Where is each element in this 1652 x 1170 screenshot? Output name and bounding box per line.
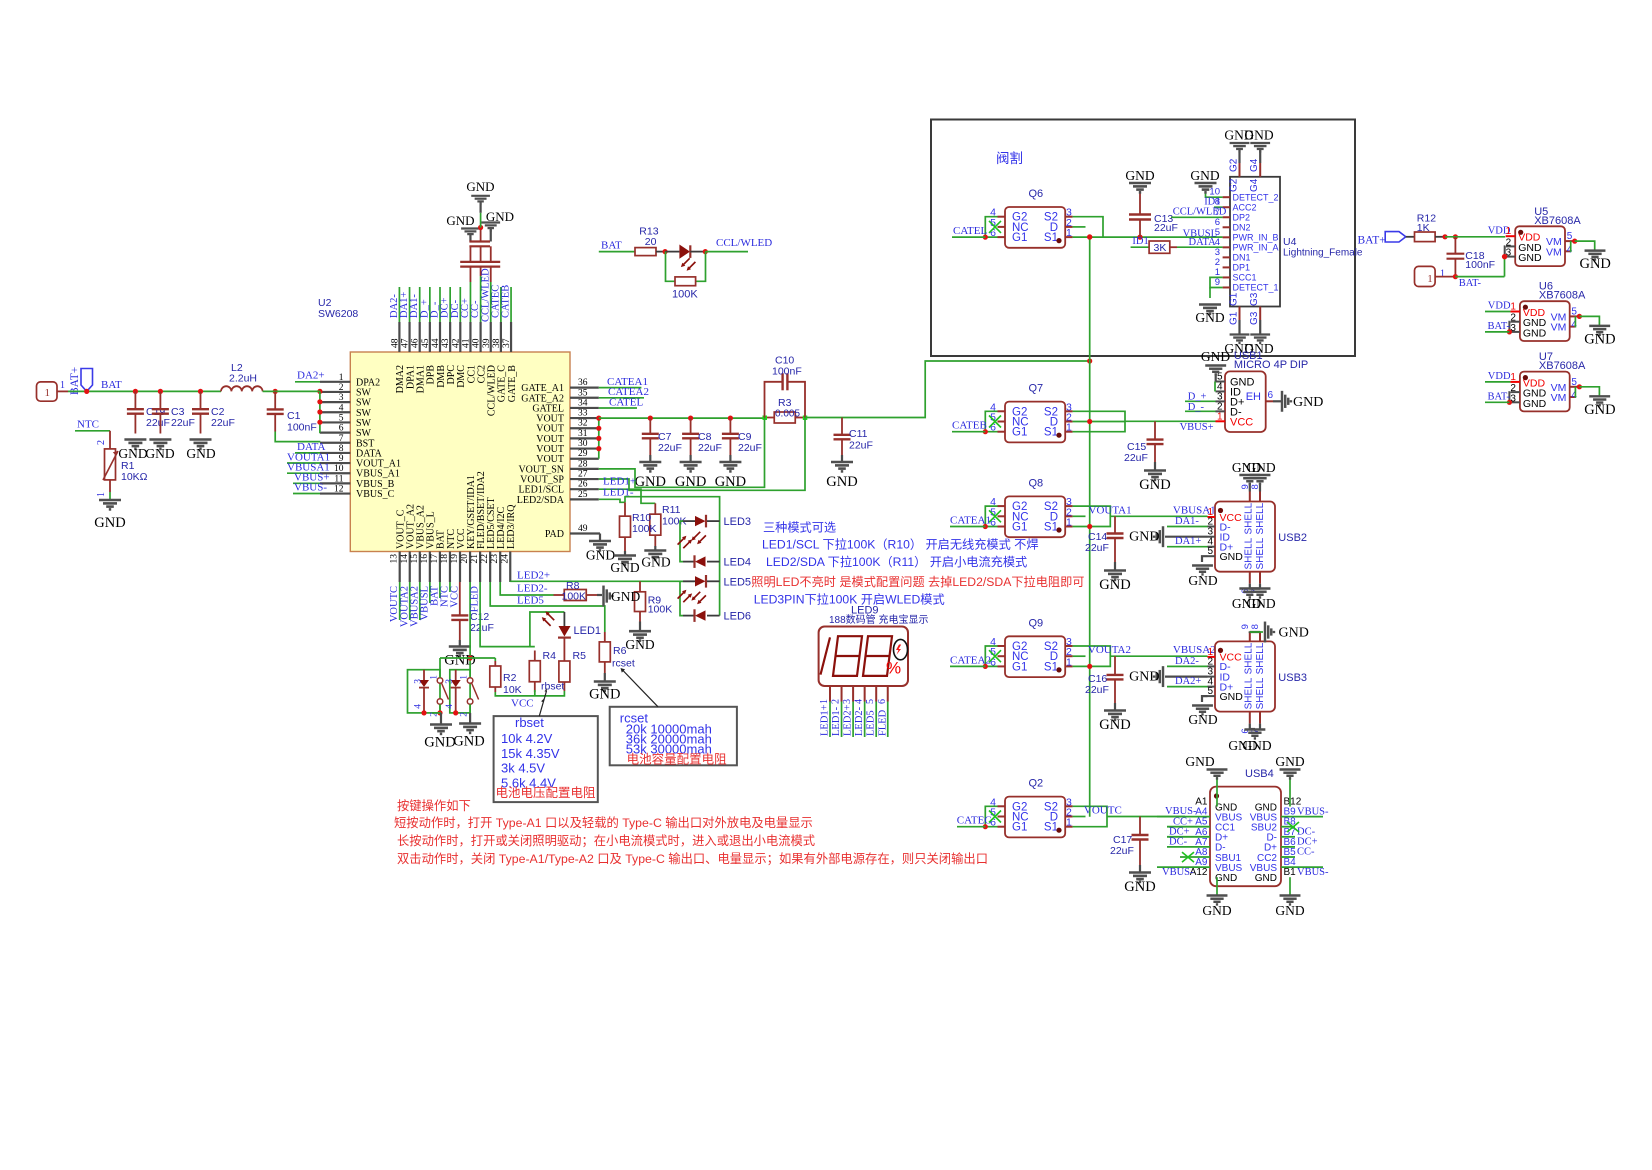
- svg-text:6: 6: [1268, 390, 1274, 401]
- svg-text:GND: GND: [1129, 530, 1159, 545]
- ground at U2 PAD: [589, 541, 611, 550]
- net label VBUS- on pin 12: [293, 493, 320, 495]
- ground below switch S1: [432, 712, 441, 714]
- capacitor C7 22uF: [649, 418, 651, 434]
- ground at U4 DETECT_2: [1195, 183, 1217, 192]
- svg-text:GND: GND: [1584, 331, 1615, 347]
- svg-text:37: 37: [502, 338, 512, 348]
- ground below C2: [190, 440, 212, 449]
- svg-text:1: 1: [1066, 227, 1072, 239]
- svg-text:G2: G2: [1229, 178, 1240, 192]
- svg-text:21: 21: [470, 554, 480, 564]
- ground below C8: [689, 455, 691, 462]
- ground below C3: [149, 440, 171, 449]
- wire Q7 D to rail: [1073, 421, 1125, 423]
- net label CCL/WLED at U4 DP2: [1171, 216, 1223, 218]
- svg-text:22uF: 22uF: [1110, 845, 1134, 857]
- wire Q6 D stub: [1073, 226, 1086, 228]
- svg-text:SHELL: SHELL: [1255, 502, 1266, 534]
- svg-text:Q8: Q8: [1029, 477, 1044, 489]
- svg-text:VBUS-: VBUS-: [294, 482, 327, 494]
- svg-text:45: 45: [421, 338, 431, 348]
- ground below R6: [604, 673, 606, 681]
- svg-text:6: 6: [339, 424, 344, 434]
- svg-text:1: 1: [60, 380, 65, 391]
- ground above C13: [1129, 183, 1151, 192]
- net label D_+ at USB1 D+: [1185, 400, 1216, 402]
- wire Q6 gate bracket: [985, 217, 997, 237]
- svg-text:CCL/WLED: CCL/WLED: [1173, 207, 1227, 218]
- svg-text:LED2-: LED2-: [517, 583, 548, 595]
- svg-text:34: 34: [578, 398, 588, 408]
- svg-text:%: %: [886, 659, 901, 678]
- resistor R11 100K: [654, 503, 656, 514]
- ground below C16: [1114, 703, 1116, 710]
- svg-text:188数码管 充电宝显示: 188数码管 充电宝显示: [829, 613, 928, 626]
- svg-text:1: 1: [1217, 411, 1223, 422]
- svg-text:3k 4.5V: 3k 4.5V: [501, 761, 545, 776]
- svg-text:10K: 10K: [503, 684, 522, 696]
- svg-text:5: 5: [339, 413, 344, 423]
- svg-text:30: 30: [578, 439, 588, 449]
- ground below C11: [841, 455, 843, 462]
- svg-text:S1: S1: [1044, 661, 1058, 673]
- svg-text:100nF: 100nF: [287, 422, 317, 434]
- wire LED5 feed from LED2+ net: [510, 580, 694, 582]
- svg-text:阀割: 阀割: [996, 150, 1023, 166]
- no-connect cross at USB4 B8: [1287, 822, 1299, 832]
- svg-text:照明LED不亮时 是模式配置问题 去掉LED2/SDA下拉电: 照明LED不亮时 是模式配置问题 去掉LED2/SDA下拉电阻即可: [751, 574, 1084, 589]
- svg-text:LED2+: LED2+: [843, 704, 854, 736]
- svg-text:电池电压配置电阻: 电池电压配置电阻: [496, 786, 597, 800]
- wire pin23 LED4/I2C to R8 (LED2- net): [500, 582, 517, 595]
- svg-text:VM: VM: [1551, 322, 1567, 334]
- digit 8 second: [863, 636, 892, 676]
- svg-text:SCC1: SCC1: [1233, 273, 1257, 283]
- svg-text:G1: G1: [1012, 822, 1027, 834]
- svg-text:22uF: 22uF: [1124, 452, 1148, 464]
- wire KEY horizontal to R2: [440, 657, 495, 659]
- wire R12 to U5 VDD: [1442, 234, 1447, 239]
- svg-text:CATEB: CATEB: [952, 420, 987, 432]
- svg-text:GND: GND: [446, 213, 474, 228]
- svg-text:1: 1: [1066, 422, 1072, 434]
- note box rbset battery voltage config: [494, 716, 598, 802]
- net label ID1 at U4 ACC2: [1214, 206, 1223, 208]
- svg-text:2: 2: [460, 712, 470, 717]
- svg-text:GND: GND: [1275, 754, 1304, 769]
- ground sideways at USB2 ID: [1165, 536, 1208, 538]
- wire USB1 ID pin4 green elbow: [1214, 382, 1216, 392]
- ground at cluster top: [471, 196, 490, 204]
- svg-text:1: 1: [1510, 372, 1516, 383]
- ground below switch S2: [469, 704, 471, 713]
- svg-text:GND: GND: [94, 515, 125, 531]
- wire Q6 S2 to S1 merge: [1073, 217, 1103, 237]
- svg-text:4: 4: [339, 403, 344, 413]
- svg-text:GND: GND: [1293, 395, 1323, 410]
- svg-text:GND: GND: [186, 446, 215, 461]
- svg-text:3K: 3K: [1154, 242, 1167, 254]
- svg-text:LED4: LED4: [724, 557, 752, 569]
- svg-text:G1: G1: [1012, 522, 1027, 534]
- wire R13 to LED anode: [656, 251, 665, 253]
- transistor Q6 dual MOSFET: [1005, 207, 1065, 248]
- svg-text:LED3/IRQ: LED3/IRQ: [506, 504, 517, 549]
- svg-text:GND: GND: [1188, 712, 1217, 727]
- svg-text:VBUS_C: VBUS_C: [356, 489, 395, 500]
- svg-text:5: 5: [865, 699, 876, 704]
- svg-text:DN1: DN1: [1233, 253, 1251, 263]
- capacitor C8 22uF: [690, 418, 692, 434]
- transistor Q2 dual MOSFET: [1005, 797, 1065, 838]
- svg-text:1: 1: [1066, 656, 1072, 668]
- svg-text:ACC2: ACC2: [1233, 202, 1257, 212]
- svg-text:LED6: LED6: [724, 611, 752, 623]
- svg-text:DA1-: DA1-: [1175, 516, 1199, 527]
- net label CATEA1 pin36: [599, 387, 642, 389]
- svg-text:GND: GND: [145, 446, 174, 461]
- svg-text:22uF: 22uF: [658, 442, 682, 454]
- svg-text:Q6: Q6: [1029, 188, 1044, 200]
- svg-text:GND: GND: [1579, 256, 1610, 272]
- svg-text:GND: GND: [453, 734, 484, 750]
- svg-text:1: 1: [1066, 817, 1072, 829]
- wire VOUT_SP sense pin27 to R3 right: [599, 418, 805, 491]
- capacitor lower decoupling wide: [460, 261, 500, 263]
- svg-text:DETECT_1: DETECT_1: [1233, 283, 1279, 293]
- svg-text:GND: GND: [1099, 717, 1130, 733]
- svg-text:1: 1: [1427, 273, 1433, 285]
- U2 top pins 37-48 stubs and names: [398, 322, 400, 352]
- wire Q8 S bracket: [1073, 506, 1111, 526]
- svg-text:GND: GND: [1124, 879, 1155, 895]
- wire Q9 D stub: [1073, 655, 1086, 657]
- ground below C7: [649, 455, 651, 462]
- net flag BAT+ vertical: [81, 369, 93, 392]
- wire L2 to SW bus: [263, 390, 320, 392]
- svg-text:BAT+: BAT+: [1358, 235, 1386, 247]
- wires from U2 bottom pins 13-18 with labels: [399, 582, 401, 620]
- wire Q2 gate bracket: [985, 806, 997, 826]
- svg-text:38: 38: [492, 338, 502, 348]
- svg-text:20: 20: [460, 554, 470, 564]
- capacitor C13 22uF: [1139, 191, 1141, 215]
- svg-text:GND: GND: [444, 653, 475, 669]
- ground at pin41 top: [461, 229, 480, 237]
- svg-text:1: 1: [1440, 269, 1445, 280]
- push button switch S1 with TVS: [408, 670, 441, 713]
- LED3 light emitting diode: [683, 520, 695, 522]
- svg-text:CCL/WLED: CCL/WLED: [716, 237, 772, 249]
- svg-text:G4: G4: [1249, 178, 1260, 192]
- svg-text:DC-: DC-: [1297, 827, 1316, 838]
- svg-text:4: 4: [854, 699, 865, 704]
- ground below C9: [729, 455, 731, 462]
- svg-text:8: 8: [1250, 624, 1261, 629]
- arrow rbset box to R4: [539, 698, 544, 716]
- wire DATA 3K to U4 PWR_IN_A: [1177, 246, 1223, 248]
- wire pin20 KEY down to switches: [469, 582, 471, 677]
- svg-text:SHELL: SHELL: [1244, 642, 1255, 674]
- op-amp U7 XB7608A battery protect IC: [1520, 372, 1570, 412]
- svg-text:LED2+: LED2+: [517, 569, 550, 581]
- svg-text:DA2+: DA2+: [297, 370, 325, 382]
- svg-text:C1: C1: [287, 410, 301, 422]
- wire U6 GND pins elbow: [1508, 322, 1511, 332]
- svg-text:2.2uH: 2.2uH: [229, 373, 257, 385]
- svg-text:15: 15: [410, 554, 420, 564]
- resistor R6 rcset: [604, 632, 606, 642]
- svg-text:1: 1: [45, 387, 51, 399]
- wire U4 SCC1 DETECT_1 to ground: [1210, 277, 1223, 287]
- svg-text:PWR_IN_B: PWR_IN_B: [1233, 233, 1279, 243]
- svg-text:DA2+: DA2+: [1175, 676, 1201, 687]
- svg-text:24: 24: [500, 554, 510, 564]
- svg-text:CATEA1: CATEA1: [950, 515, 991, 527]
- resistor 100K parallel with LED: [666, 252, 676, 282]
- svg-text:R2: R2: [503, 672, 517, 684]
- svg-text:32: 32: [578, 419, 588, 429]
- net label BAT- at U6: [1485, 331, 1509, 333]
- wire C1 to BST pin7: [275, 432, 320, 442]
- svg-text:LED3PIN下拉100K 开启WLED模式: LED3PIN下拉100K 开启WLED模式: [754, 592, 945, 607]
- svg-text:1K: 1K: [1417, 222, 1430, 234]
- capacitor C14 22uF: [1114, 516, 1116, 533]
- capacitor C1 100nF bootstrap: [274, 391, 276, 409]
- svg-text:G2: G2: [1229, 158, 1240, 172]
- wire Q2 D stub: [1073, 816, 1086, 818]
- resistor R 3K: [1149, 241, 1170, 253]
- diode LED white led D1: [665, 251, 679, 253]
- svg-text:D_-: D_-: [1188, 402, 1205, 413]
- wire pin24 LED3/IRQ to LED2+ net: [509, 580, 511, 583]
- U2 PAD pin 49: [570, 532, 600, 534]
- wire pin21 FLED down and right to R4: [480, 582, 535, 647]
- svg-text:LED5: LED5: [517, 595, 544, 607]
- net label CATEB at Q7: [952, 431, 985, 433]
- svg-text:G3: G3: [1249, 311, 1260, 325]
- connector USB2 USB-A body: [1215, 502, 1275, 572]
- LED5 light emitting diode: [683, 580, 695, 582]
- svg-text:VM: VM: [1546, 246, 1562, 258]
- svg-text:1: 1: [339, 373, 344, 383]
- svg-text:LED1: LED1: [574, 625, 602, 637]
- svg-text:47: 47: [401, 338, 411, 348]
- wire VOUT main horizontal: [599, 417, 765, 419]
- net label BAT at R13: [599, 251, 635, 253]
- svg-text:22uF: 22uF: [171, 417, 195, 429]
- svg-text:22uF: 22uF: [698, 442, 722, 454]
- svg-text:LED1-: LED1-: [831, 706, 842, 736]
- svg-text:双击动作时，关闭 Type-A1/Type-A2 口及 Ty: 双击动作时，关闭 Type-A1/Type-A2 口及 Type-C 输出口、电…: [397, 851, 988, 866]
- capacitor C11 22uF: [841, 418, 843, 435]
- svg-text:100K: 100K: [562, 591, 587, 603]
- svg-text:10KΩ: 10KΩ: [121, 471, 148, 483]
- svg-text:5: 5: [1207, 546, 1213, 557]
- wire U5 GND pins elbow: [1504, 246, 1507, 256]
- net label DATA on pin 8: [295, 452, 320, 454]
- USB3 top shell grounds to sideways gnd: [1250, 630, 1260, 633]
- ground below R9: [639, 622, 641, 632]
- pad P2 battery negative terminal: [1415, 266, 1436, 286]
- ground sideways at USB3 ID: [1165, 675, 1208, 677]
- svg-text:SHELL: SHELL: [1255, 677, 1266, 709]
- svg-text:GND: GND: [1185, 754, 1214, 769]
- svg-text:15k 4.35V: 15k 4.35V: [501, 746, 560, 761]
- svg-text:LED5: LED5: [866, 710, 877, 736]
- op-amp U6 XB7608A battery protect IC: [1520, 301, 1570, 341]
- svg-text:100K: 100K: [672, 289, 698, 301]
- svg-text:GND: GND: [589, 687, 620, 703]
- note box rcset battery capacity config: [610, 707, 737, 766]
- wire pin41 CC+ up into cluster: [469, 282, 471, 322]
- svg-text:GATE_B: GATE_B: [507, 365, 518, 403]
- resistor R13 20: [635, 248, 656, 256]
- svg-text:VDD: VDD: [1488, 371, 1511, 382]
- USB2 bottom shell grounds: [1249, 584, 1251, 588]
- svg-text:GND: GND: [1099, 577, 1130, 593]
- svg-text:GND: GND: [1202, 903, 1231, 918]
- svg-text:VBUS-: VBUS-: [1162, 867, 1194, 878]
- svg-text:GND: GND: [1242, 738, 1271, 753]
- svg-text:BAT: BAT: [101, 379, 122, 391]
- svg-text:4: 4: [1567, 244, 1573, 255]
- svg-text:G1: G1: [1012, 427, 1027, 439]
- svg-text:22uF: 22uF: [1154, 222, 1178, 234]
- capacitor C3 22uF: [159, 391, 161, 409]
- net label VOUTA1 on pin 9: [287, 462, 320, 464]
- svg-text:VOUTA2: VOUTA2: [1088, 644, 1131, 656]
- wire LED chain top feed: [625, 497, 720, 616]
- svg-text:BAT: BAT: [601, 240, 622, 252]
- svg-text:29: 29: [578, 449, 588, 459]
- net label DA2+ at USB3: [1167, 686, 1208, 688]
- svg-text:100K: 100K: [648, 604, 673, 616]
- wire LED5 LED6 left bus: [680, 581, 683, 615]
- svg-text:4: 4: [1571, 390, 1577, 401]
- svg-text:VBUS-: VBUS-: [1297, 867, 1329, 878]
- LED1 light emitting diode: [563, 612, 565, 626]
- ground below C12: [459, 640, 461, 646]
- U2 right pins 25-36 stubs and names: [570, 387, 599, 389]
- svg-text:GND: GND: [1201, 349, 1230, 364]
- svg-text:R6: R6: [613, 645, 627, 657]
- ground below C14: [1114, 562, 1116, 570]
- USB3 bottom shell grounds: [1249, 724, 1251, 729]
- svg-text:GND: GND: [625, 637, 654, 652]
- svg-text:短按动作时，打开 Type-A1 口以及轻载的 Type-C: 短按动作时，打开 Type-A1 口以及轻载的 Type-C 输出口对外放电及电…: [394, 815, 813, 830]
- svg-text:4: 4: [445, 704, 455, 709]
- wire R3 output to VOUT rail: [805, 361, 1090, 418]
- svg-text:GND: GND: [1129, 670, 1159, 685]
- op-amp U2 SW6208 main IC body: [350, 352, 570, 552]
- net label CCL/WLED at diode: [705, 251, 748, 253]
- svg-text:1: 1: [1066, 517, 1072, 529]
- svg-text:Q9: Q9: [1029, 617, 1044, 629]
- svg-text:USB4: USB4: [1245, 768, 1274, 780]
- svg-text:DA1+: DA1+: [1175, 536, 1201, 547]
- svg-text:R11: R11: [662, 504, 681, 516]
- net label CATEL pin34: [599, 407, 637, 409]
- wire U4 DETECT_2 to ground: [1206, 191, 1223, 197]
- svg-text:2: 2: [831, 699, 842, 704]
- net label CATEA2 at Q9: [950, 665, 985, 667]
- svg-text:35: 35: [578, 388, 588, 398]
- svg-text:CATEA2: CATEA2: [950, 654, 991, 666]
- resistor R9 100K: [639, 581, 641, 592]
- svg-text:10k 4.2V: 10k 4.2V: [501, 731, 553, 746]
- svg-text:三种模式可选: 三种模式可选: [763, 521, 836, 535]
- svg-text:VM: VM: [1551, 392, 1567, 404]
- svg-text:GND: GND: [1246, 460, 1275, 475]
- capacitor C19 22uF: [134, 391, 136, 409]
- svg-text:GND: GND: [1220, 691, 1244, 703]
- svg-text:SW6208: SW6208: [318, 308, 358, 320]
- svg-text:VDD: VDD: [1488, 301, 1511, 312]
- svg-text:SHELL: SHELL: [1244, 677, 1255, 709]
- net label DA1- at USB2: [1167, 526, 1208, 528]
- svg-text:GND: GND: [641, 555, 670, 570]
- wire switch S1 to KEY net: [439, 658, 441, 678]
- wires from U2 top pins with net labels: [398, 287, 400, 322]
- wire Q7 S bracket to output: [1073, 411, 1125, 431]
- svg-text:BAT-: BAT-: [1488, 391, 1511, 402]
- svg-text:GND: GND: [1523, 327, 1547, 339]
- svg-text:C11: C11: [849, 428, 868, 440]
- wire pin40 CC- up into cluster: [480, 276, 482, 322]
- net label VBUSA1 on pin 10: [287, 472, 320, 474]
- svg-text:Q2: Q2: [1029, 778, 1044, 790]
- svg-text:SHELL: SHELL: [1255, 537, 1266, 569]
- U2 bottom pins 13-24 stubs and names: [399, 552, 401, 583]
- net label CATEC at Q2: [957, 826, 985, 828]
- svg-text:VCC: VCC: [450, 586, 461, 608]
- svg-text:长按动作时，打开或关闭照明驱动；在小电流模式时，进入或退出小: 长按动作时，打开或关闭照明驱动；在小电流模式时，进入或退出小电流模式: [397, 834, 815, 848]
- net label DA2+ on pin 1: [295, 381, 320, 383]
- svg-text:0.005: 0.005: [775, 409, 800, 420]
- capacitor C10 100nF across R3: [765, 382, 783, 418]
- svg-text:CATEL: CATEL: [953, 225, 988, 237]
- svg-text:LED2-: LED2-: [854, 706, 865, 736]
- svg-text:DP2: DP2: [1233, 212, 1251, 222]
- svg-text:3: 3: [339, 393, 344, 403]
- ground above USB1: [1205, 366, 1226, 375]
- svg-text:电池容量配置电阻: 电池容量配置电阻: [627, 751, 728, 766]
- svg-text:R5: R5: [573, 650, 587, 662]
- capacitor C2 22uF: [200, 391, 202, 409]
- USB1 EH pin 6 to sideways ground: [1266, 400, 1273, 402]
- USB2 top shell grounds: [1249, 483, 1251, 492]
- arrow rcset box to R6: [623, 670, 659, 707]
- svg-text:GND: GND: [1195, 310, 1224, 325]
- ground below R1: [99, 500, 121, 509]
- svg-text:LED2/SDA 下拉100K（R11） 开启小电流充模式: LED2/SDA 下拉100K（R11） 开启小电流充模式: [766, 554, 1027, 569]
- wire Q7 gate bracket: [985, 411, 997, 431]
- svg-text:LED1/SCL 下拉100K（R10） 开启无线充模式 不: LED1/SCL 下拉100K（R10） 开启无线充模式 不焊: [762, 537, 1039, 552]
- svg-text:S1: S1: [1044, 427, 1058, 439]
- svg-text:2: 2: [339, 383, 344, 393]
- svg-text:17: 17: [430, 554, 440, 564]
- svg-text:GND: GND: [1279, 626, 1309, 641]
- svg-text:FLED: FLED: [470, 586, 481, 613]
- resistor R12 1K: [1415, 232, 1436, 242]
- resistor R8 100K to ground: [554, 594, 565, 596]
- svg-text:6: 6: [877, 699, 888, 704]
- svg-text:SHELL: SHELL: [1244, 502, 1255, 534]
- svg-text:G1: G1: [1012, 661, 1027, 673]
- net label DA2- at USB3: [1167, 665, 1208, 667]
